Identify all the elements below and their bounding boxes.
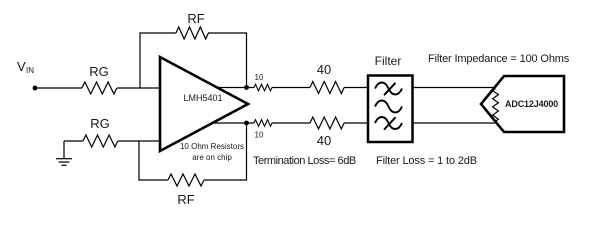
wire op-amp output top stub [217, 87, 255, 89]
label VIN [17, 59, 34, 75]
node output bottom [244, 121, 249, 126]
svg-text:ADC12J4000: ADC12J4000 [505, 99, 558, 109]
svg-text:Filter Loss = 1 to 2dB: Filter Loss = 1 to 2dB [376, 155, 477, 167]
filter wave middle (sine) [375, 101, 402, 113]
resistor RG (bottom) [83, 135, 118, 147]
wire filter to ADC top [412, 87, 496, 89]
wire 40 to filter bottom [344, 122, 368, 124]
wire ground to RG bottom [64, 140, 83, 142]
svg-text:Filter: Filter [375, 54, 402, 68]
resistor RF (top) [176, 27, 208, 39]
svg-text:IN: IN [26, 66, 34, 75]
resistor RF (bottom) [168, 174, 204, 186]
node output top [244, 85, 249, 90]
svg-text:10 Ohm Resistors: 10 Ohm Resistors [180, 142, 244, 151]
svg-text:Termination Loss= 6dB: Termination Loss= 6dB [253, 155, 356, 167]
svg-text:are on chip: are on chip [192, 153, 232, 162]
wire 40 to filter top [344, 87, 368, 89]
wire input to RG [35, 87, 82, 89]
svg-text:LMH5401: LMH5401 [183, 93, 222, 103]
wire feedback bottom left vertical [139, 141, 168, 180]
wire filter to ADC bottom [412, 122, 498, 124]
wire RG to op-amp [117, 87, 160, 89]
svg-text:RF: RF [177, 192, 194, 207]
resistor 10 (bottom) [254, 120, 272, 127]
wire feedback top left vertical [140, 33, 176, 88]
svg-text:40: 40 [317, 62, 331, 77]
resistor RG (top) [82, 82, 117, 94]
filter wave top (slashed sine) [375, 83, 402, 96]
svg-text:RG: RG [89, 64, 109, 79]
resistor 40 (top) [310, 82, 344, 94]
wire RG bottom to op-amp [118, 140, 160, 142]
wire 10 to 40 top [272, 87, 310, 89]
note 10 ohm resistors on chip [180, 142, 244, 162]
resistor 40 (bottom) [310, 117, 344, 129]
resistor termination inside ADC [493, 89, 499, 122]
svg-text:Filter Impedance = 100 Ohms: Filter Impedance = 100 Ohms [428, 53, 570, 65]
filter wave bottom (slashed sine) [375, 117, 402, 130]
ADC block ADC12J4000 [481, 76, 564, 132]
filter box [368, 76, 413, 143]
svg-text:40: 40 [317, 133, 331, 148]
svg-text:V: V [17, 59, 26, 74]
node VIN input dot [33, 86, 38, 91]
svg-text:RG: RG [90, 116, 110, 131]
ground [56, 141, 72, 165]
wire 10 to 40 bottom [272, 122, 310, 124]
svg-text:RF: RF [187, 11, 204, 26]
wire op-amp output bottom stub [213, 122, 255, 124]
wire feedback top right vertical [208, 33, 247, 88]
op-amp U1 LMH5401 [160, 57, 248, 151]
resistor 10 (top) [254, 84, 272, 91]
wire feedback bottom right vertical [204, 123, 247, 180]
svg-text:10: 10 [255, 131, 264, 140]
svg-text:10: 10 [255, 73, 264, 82]
